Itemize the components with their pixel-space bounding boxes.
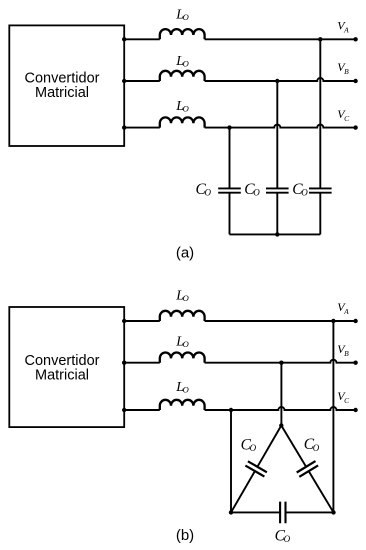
terminal dot V_B (b) [353,361,357,365]
wire phase C (a): converter to inductor [124,127,160,129]
wire phase C (b): inductor to terminal V_C, hops over apex and phase-A branches [205,407,356,410]
junction dot delta right corner (b) [331,510,335,514]
label C_O delta left side (b) [241,436,257,453]
converter block U1 (a): Convertidor Matricial [9,25,124,146]
svg-text:B: B [344,349,349,358]
converter block U2 (b): Convertidor Matricial [9,307,124,427]
svg-text:B: B [344,67,349,76]
capacitor C_O branch 2 (a) [266,188,289,192]
wire delta right side lower segment (b) [309,471,334,512]
inductor L_O phase B (b) [160,353,205,363]
label C_O branch 3 (a) [292,181,308,198]
wire branch 2 vertical (a): capacitor to star rail [276,193,278,235]
wire delta bottom side left segment (b) [231,511,280,513]
terminal dot V_A (a) [353,37,357,41]
svg-text:Matricial: Matricial [35,368,89,384]
junction dot phase A / delta corner branch (b) [331,319,335,323]
terminal dot V_C (b) [353,408,357,412]
inductor L_O phase B (a) [160,71,205,81]
wire phase B (a): converter to inductor [124,80,160,82]
wire branch 1 vertical (a): phase C tap down to capacitor [229,128,231,189]
wire phase A (b): inductor to terminal V_A [205,320,356,322]
svg-text:O: O [183,58,189,68]
node V_A (a) [337,19,349,35]
label L_O phase A (a) [175,8,189,23]
junction dot phase C at converter (b) [122,408,126,412]
junction dot phase A at converter (a) [122,37,126,41]
svg-text:O: O [301,187,308,197]
label L_O phase A (b) [175,289,189,304]
svg-text:O: O [183,103,189,113]
svg-text:(a): (a) [176,245,194,262]
wire branch 3 vertical (a): capacitor to star rail [319,193,321,235]
junction dot phase A at converter (b) [122,319,126,323]
junction dot delta left corner (b) [229,510,233,514]
capacitor C_O branch 3 (a) [309,188,332,192]
junction dot phase B at converter (a) [122,79,126,83]
wire phase B (b): converter to inductor [124,362,160,364]
inductor L_O phase C (b) [160,400,205,410]
inductor L_O phase A (b) [160,311,205,321]
junction dot phase C / capacitor branch 1 (a) [227,125,231,129]
wire delta right corner drop (b): phase A tap down to right corner [332,321,334,512]
svg-text:A: A [343,26,349,35]
node V_C (a) [337,107,350,123]
wire branch 2 vertical (a): phase B tap down to capacitor [276,81,278,188]
node V_B (b) [337,342,349,358]
svg-text:Matricial: Matricial [35,85,89,101]
svg-text:O: O [183,339,189,349]
node V_C (b) [337,389,350,405]
wire phase B (a): inductor to terminal V_B, hop over branch 3 [205,78,356,81]
junction dot phase B / capacitor branch 2 (a) [275,79,279,83]
label L_O phase B (b) [175,335,189,350]
junction dot phase C / delta left corner branch (b) [229,408,233,412]
wire delta apex drop (b): phase B tap down to apex [280,363,282,426]
svg-text:Convertidor: Convertidor [25,353,100,369]
wire phase B (b): inductor to terminal V_B, hop over phase-A branch [205,360,356,363]
label L_O phase C (b) [175,380,189,395]
svg-text:O: O [284,534,291,544]
junction dot phase A / capacitor branch 3 (a) [318,37,322,41]
svg-text:O: O [183,12,189,22]
wire delta right side upper segment (b) [281,426,306,467]
junction dot delta apex (b) [279,423,283,427]
capacitor C_O delta left side (b) [245,461,267,476]
junction dot star point (a) [275,232,279,236]
node V_A (b) [337,300,349,316]
wire star-point rail (a) [230,233,321,235]
svg-text:O: O [183,293,189,303]
svg-text:O: O [205,187,212,197]
capacitor C_O delta right side (b) [297,461,318,477]
wire phase A (a): converter to inductor [124,38,160,40]
label C_O branch 1 (a) [196,181,212,198]
wire delta left side upper segment (b) [257,426,281,467]
label C_O delta right side (b) [304,436,320,453]
svg-text:O: O [250,443,257,453]
wire delta left side lower segment (b) [231,471,255,512]
wire branch 3 vertical (a): phase A tap down to capacitor [319,39,321,188]
svg-text:A: A [343,307,349,316]
terminal dot V_A (b) [353,319,357,323]
svg-text:O: O [253,187,260,197]
wire phase C (a): inductor to terminal V_C, hops over branches 2 and 3 [205,125,356,128]
capacitor C_O delta bottom side (b) [280,502,285,524]
svg-text:O: O [313,443,320,453]
terminal dot V_C (a) [353,125,357,129]
inductor L_O phase A (a) [160,29,205,39]
label C_O branch 2 (a) [244,181,260,198]
label L_O phase C (a) [175,99,189,114]
svg-text:Convertidor: Convertidor [25,71,100,87]
junction dot phase B / delta apex branch (b) [279,361,283,365]
capacitor C_O branch 1 (a) [218,188,241,192]
junction dot phase B at converter (b) [122,361,126,365]
node V_B (a) [337,60,349,76]
wire delta left corner drop (b): phase C tap down to left corner [230,410,232,512]
wire phase A (a): inductor to terminal V_A [205,38,356,40]
terminal dot V_B (a) [353,79,357,83]
junction dot phase C at converter (a) [122,125,126,129]
wire branch 1 vertical (a): capacitor to star rail [229,193,231,235]
inductor L_O phase C (a) [160,117,205,127]
wire phase C (b): converter to inductor [124,409,160,411]
wire delta bottom side right segment (b) [286,511,334,513]
svg-text:(b): (b) [176,527,194,544]
label C_O delta bottom side (b) [275,527,291,544]
label L_O phase B (a) [175,54,189,69]
svg-text:O: O [183,384,189,394]
wire phase A (b): converter to inductor [124,320,160,322]
